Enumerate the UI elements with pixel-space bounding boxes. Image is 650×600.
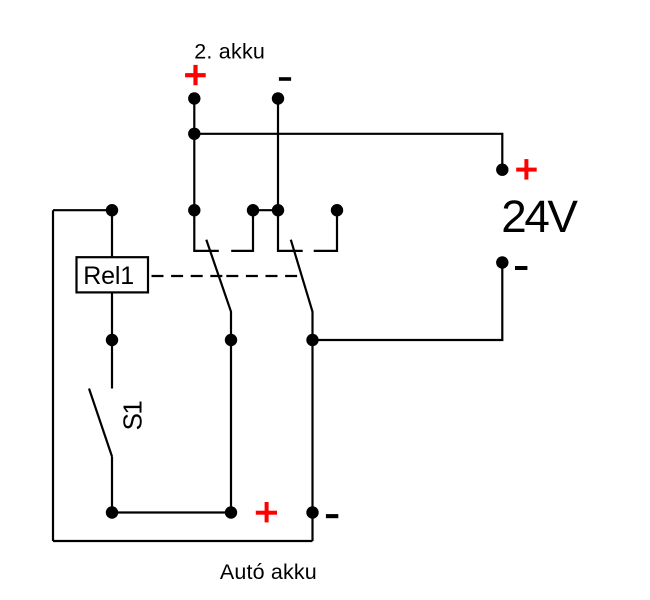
wire: S1 bottom lead — [111, 457, 113, 513]
node: arm 2 bottom / 24V - common — [306, 334, 318, 346]
node: auto akku + — [225, 506, 237, 518]
minus terminal symbol (2. akku) — [279, 77, 291, 81]
plus terminal symbol (24V) — [516, 159, 537, 180]
node: S1 bottom — [106, 506, 118, 518]
minus terminal symbol (auto akku) — [326, 514, 338, 518]
wire: bottom row S1 to auto akku + — [112, 511, 231, 513]
wire: bottom outer up to auto akku - node — [311, 513, 313, 542]
wire: bottom outer horizontal — [53, 540, 313, 542]
relay Rel1 box — [77, 257, 149, 292]
wire: relay coil bottom lead — [111, 292, 113, 340]
wire: 2. akku - terminal down to contact row — [277, 99, 279, 211]
switch S1 arm — [89, 389, 112, 457]
contact stub 3 (L shape) — [278, 210, 303, 251]
wire: top bus to 24V + — [194, 134, 502, 170]
node: relay coil top — [106, 204, 118, 216]
plus terminal symbol (auto akku) — [256, 502, 277, 522]
dashed link: Rel1 to contact arms — [152, 275, 223, 277]
relay contact arm 1 — [206, 240, 231, 340]
node: 24V - terminal — [496, 256, 508, 268]
relay contact arm 2 — [291, 240, 313, 340]
node: contact row dot 4 — [331, 204, 343, 216]
node: contact row dot 3 — [272, 204, 284, 216]
wire: relay coil top lead — [111, 210, 113, 257]
svg-text:24V: 24V — [501, 191, 578, 242]
node: 24V + terminal — [496, 164, 508, 176]
svg-text:S1: S1 — [117, 400, 147, 430]
contact stub 4 (L shape) — [314, 210, 337, 251]
node: contact row dot 2 — [247, 204, 259, 216]
svg-text:Autó akku: Autó akku — [220, 560, 317, 584]
wire: top left horizontal to relay coil — [53, 209, 112, 211]
contact stub 2 (L shape) — [231, 210, 253, 251]
wire: 24V - terminal down and left to relay contact common — [313, 263, 503, 341]
wire: left outer vertical — [52, 210, 54, 541]
wire: arm 2 down to auto akku - — [311, 340, 313, 513]
svg-text:Rel1: Rel1 — [83, 262, 134, 290]
plus terminal symbol (2. akku) — [185, 65, 206, 85]
node: junction of + feed and top bus — [188, 128, 200, 140]
wire: arm 1 down to auto akku + — [230, 340, 232, 513]
node: contact row dot 1 — [188, 204, 200, 216]
node: 2. akku + terminal — [188, 92, 200, 104]
node: 2. akku - terminal — [272, 92, 284, 104]
wire: link between contact row nodes — [253, 209, 278, 211]
minus terminal symbol (24V) — [515, 266, 527, 270]
wire: 2. akku + terminal down to contact row — [193, 99, 195, 211]
node: arm 1 bottom — [225, 334, 237, 346]
dashed link: continuation to arm 2 — [226, 275, 297, 277]
node: coil bottom junction — [106, 334, 118, 346]
node: auto akku - — [306, 506, 318, 518]
contact stub 1 (L shape) — [194, 210, 219, 251]
svg-text:2. akku: 2. akku — [194, 39, 265, 63]
wire: coil bottom to switch S1 — [111, 340, 113, 389]
